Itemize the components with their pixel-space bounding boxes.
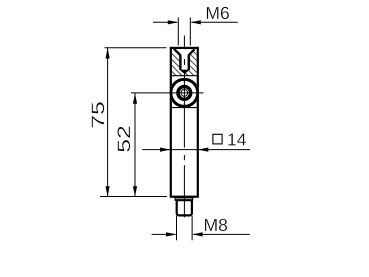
M6 arrow right bbox=[190, 20, 201, 24]
svg-text:M6: M6 bbox=[205, 3, 229, 23]
svg-text:M8: M8 bbox=[204, 215, 228, 235]
M6 countersink right edge bbox=[188, 49, 194, 55]
M8 dim line right bbox=[193, 233, 249, 235]
vertical centerline lower solid bbox=[183, 165, 185, 217]
body outline bbox=[171, 48, 198, 197]
M8 arrow right bbox=[192, 232, 203, 236]
75 dim line bbox=[107, 48, 109, 197]
bottom extension line bbox=[100, 196, 167, 198]
svg-text:52: 52 bbox=[114, 125, 134, 153]
M6 dim line right bbox=[192, 21, 238, 23]
svg-text:14: 14 bbox=[227, 129, 247, 149]
vertical centerline main solid bbox=[183, 74, 185, 148]
svg-text:75: 75 bbox=[88, 101, 108, 129]
hatched section band bbox=[172, 49, 197, 76]
75 extension line top bbox=[105, 47, 167, 49]
vertical centerline short dash bbox=[183, 155, 185, 160]
M6 countersink white cavity bbox=[174, 49, 194, 55]
52 arrow bottom bbox=[133, 186, 137, 197]
section boundary line (hatch bottom) bbox=[171, 75, 198, 77]
M6 hole left wall bbox=[179, 55, 181, 70]
section boundary line (circle band bottom) bbox=[171, 107, 198, 109]
52 arrow top bbox=[133, 93, 137, 104]
M6 dim line left bbox=[153, 21, 177, 23]
M6 extension line right bbox=[189, 18, 191, 46]
75 arrow top bbox=[106, 48, 110, 59]
clamp screw outer circle bbox=[171, 80, 197, 106]
sq14 dim line right bbox=[198, 149, 250, 151]
75 arrow bottom bbox=[106, 186, 110, 197]
sq14 arrow right bbox=[198, 148, 209, 152]
M6 drill point bbox=[179, 70, 190, 74]
sq14 dim line through body bbox=[171, 149, 198, 151]
clamp screw socket ring bbox=[178, 87, 191, 100]
M6 arrow left bbox=[168, 20, 179, 24]
stud shoulder bbox=[175, 198, 193, 200]
clamp screw chamfer arc bbox=[170, 79, 199, 108]
circle horizontal centerline bbox=[131, 92, 204, 94]
clamp screw inner circle bbox=[181, 90, 188, 97]
M8 extension line left bbox=[176, 216, 178, 241]
52 dim line bbox=[134, 93, 136, 197]
vertical centerline top segment bbox=[183, 36, 185, 47]
M6 countersink left edge bbox=[174, 49, 180, 55]
M6 hole right wall bbox=[188, 55, 190, 70]
sq14 dim line left bbox=[142, 149, 170, 151]
centerline dash in hole bbox=[184, 59, 186, 65]
M8 extension line right bbox=[191, 216, 193, 241]
M8 arrow left bbox=[166, 232, 177, 236]
M8 stud bbox=[177, 200, 192, 215]
M8 dim line left bbox=[152, 233, 176, 235]
M6 bore white slot bbox=[182, 55, 188, 70]
M6 extension line left bbox=[177, 18, 179, 46]
square symbol bbox=[213, 134, 222, 144]
sq14 arrow left bbox=[160, 148, 171, 152]
